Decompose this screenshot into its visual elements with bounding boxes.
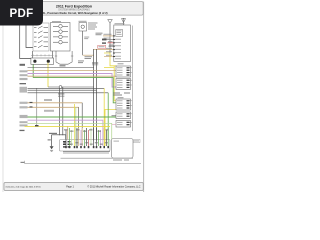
wire y92.8 [28,92,109,94]
tiny connector grid 2 [102,42,106,43]
wire into R1 tan row [103,35,114,37]
svg-text:2011 Ford Expedition: 2011 Ford Expedition [56,4,92,8]
antenna module label [79,21,87,22]
bottom left corner text [21,162,25,163]
bottom right small text [134,140,139,143]
wire y90.2 [28,89,97,91]
tan corner row 2 [28,106,79,108]
antenna module circle [81,25,84,28]
tan row into R2 [28,75,117,77]
pale green row [28,123,112,140]
label cluster y87-92 [20,87,28,93]
label above tan row [104,33,112,36]
bottom connector base line [61,157,134,159]
bottom comb bar [63,152,110,155]
stub field lower labels [64,142,108,145]
wire from badge second [26,25,33,48]
terminal circle left [33,60,36,63]
dark stub into R6 [112,115,117,117]
bottom ground bars [50,150,53,151]
svg-text:5.4L, Premium Radio Circuit, W: 5.4L, Premium Radio Circuit, With Naviga… [40,11,107,15]
wire into R1 tan low [104,56,114,58]
switch row 5 [34,45,48,48]
antenna mast 2 drop [123,23,125,26]
page left edge [2,2,4,193]
svg-text:© 2011 Mitchell Repair Informa: © 2011 Mitchell Repair Information Compa… [87,186,140,189]
svg-text:Page 1: Page 1 [66,186,74,189]
page right edge [143,2,145,193]
left wire row tan1 label [20,74,28,76]
bottom ground symbol [50,146,54,149]
speaker 2 [53,30,68,34]
antenna module drop [82,31,84,55]
mid bus hatch [58,94,64,97]
yellow entry R2 [104,66,114,68]
purple corner row [28,120,103,140]
R3 text rows [117,80,123,88]
mid vertical x36.8 [36,88,38,126]
yellow corner down box edge [104,53,117,66]
svg-text:miércoles, 4 de mayo de 2011 4: miércoles, 4 de mayo de 2011 4:19:15 [6,186,42,189]
speaker 4 [53,40,68,44]
text block mid [96,33,103,36]
speaker box [51,23,71,52]
R6 pin blocks [127,113,130,117]
green row y117 [28,116,117,118]
mid bus pair down from ring line [60,87,63,135]
R5 top label [118,97,124,98]
switch row 4 [34,40,48,43]
R2 pin blocks [127,67,130,75]
label above grey row [104,37,111,40]
green row label [20,78,28,80]
bus connector hatch [92,62,98,65]
right box R7 [116,121,131,128]
bottom module top line [52,134,66,136]
terminal circle right [47,60,50,63]
speaker 1 [53,25,68,29]
yellow exit loop from R5 [105,110,116,147]
short row y130.5 [20,130,25,131]
PDF badge [0,0,43,26]
right bracket line [131,26,133,132]
funnel side ticks [55,55,74,57]
purple row label [20,121,28,123]
green row from ground [33,78,116,103]
antenna mast 1 drop [109,23,111,53]
speaker 3 [53,35,68,39]
red label text [99,45,105,48]
R5 text rows [117,100,123,108]
terminal strip box [31,58,54,64]
green vertical from y92.8 corner [107,93,109,140]
green wire from terminal strip [32,64,34,77]
tan corner row 1 [28,102,83,104]
tan row 2 label [20,102,28,104]
antenna module box [79,23,87,32]
yellow row label [20,124,28,126]
yellow row y126.4 [25,125,111,127]
left wire row y67.5 [28,67,94,69]
bottom module drop right [65,135,67,140]
left wire row y67.5 label [20,64,26,66]
R2 top label [118,63,124,64]
tan row 3 label [20,106,28,108]
R1 inner sub box [116,30,123,37]
R5 pin blocks [127,100,130,108]
pale green vertical mid-left [75,107,77,146]
left wire row purple label [20,70,28,72]
radio unit box R1 [114,25,131,62]
dark vertical from tan row 2 [78,107,80,140]
yellow corner mid [103,88,105,140]
red label box [98,45,106,48]
switch box drops [33,51,53,58]
header title box [4,2,144,16]
wire y88.3 [28,87,105,89]
bottom text under comb [113,160,129,161]
R6 text rows [117,113,123,116]
bottom stub field [66,126,108,146]
tan row y70.4 [28,69,117,71]
tan vertical into bottom module [67,126,69,139]
bus connector label [78,56,92,63]
R7 pin blocks [127,122,130,126]
R1 inner text rows [115,31,122,60]
stub labels right column [106,41,113,56]
bottom pin ticks [65,146,109,148]
wire from badge left [20,25,31,59]
pink stub into R7 [112,123,116,125]
text block right of antenna module [88,23,98,30]
wire into R1 dark row [109,45,114,47]
switch row 2 [34,31,48,34]
antenna cable funnel connector [56,51,72,64]
terminal strip hatch [31,54,54,56]
bottom module drop left [51,135,53,147]
ring line y87 [48,86,94,88]
bottom left box pins [63,141,71,148]
yellow row junction mark [35,125,39,126]
R1 pin ticks [113,35,115,57]
switch row 3 [34,36,48,39]
page background [0,0,149,198]
bracket ticks [130,68,133,123]
antenna mast 2 [122,18,126,23]
short text row y83.7 [20,83,27,84]
text above tan row [44,99,52,101]
bottom wide connector box [60,140,111,152]
bottom right box top label [134,140,141,143]
bottom right rounded box [112,139,134,159]
right box R6 [116,112,131,119]
yellow edge run into R5 [114,66,116,101]
ground small label [48,139,51,140]
text below tan row [44,110,54,112]
bottom module label [49,133,57,134]
R3 pin blocks [127,80,130,88]
bottom right box inner text [114,141,120,142]
diagram bottom frame line [25,161,142,164]
yellow wire down from terminal [47,63,49,87]
R7 text rows [117,122,123,125]
right box R2 [116,66,131,77]
wire into R1 long tan [94,49,114,51]
footer bar box [4,183,143,191]
stub field upper labels [64,129,109,131]
antenna drop label [84,36,89,39]
speaker box label [52,20,61,23]
purple row [28,74,117,88]
green row label [20,115,28,118]
main bus pair [94,49,97,141]
tan link antenna to bus [83,54,94,56]
R2 text rows [117,67,123,75]
wire into R1 grey row [103,39,114,41]
tan row 2 wire mark [30,106,33,107]
dark vertical from tan row 1 [81,103,83,140]
wire into R1 red row [108,42,114,44]
right box R4 text [113,93,130,96]
right box R5 [116,99,131,110]
antenna mast 1 [108,20,113,24]
tiny connector grid 1 [102,39,107,41]
ring connector C [59,86,62,89]
right box R3 [116,79,131,90]
yellow vertical mid-left [74,104,76,126]
svg-text:PDF: PDF [10,8,34,20]
tan row 1 wire mark [30,102,33,103]
switch row 1 [34,26,48,29]
R1 top label [115,22,125,25]
funnel label [60,65,66,66]
radio control switch box [33,23,49,51]
